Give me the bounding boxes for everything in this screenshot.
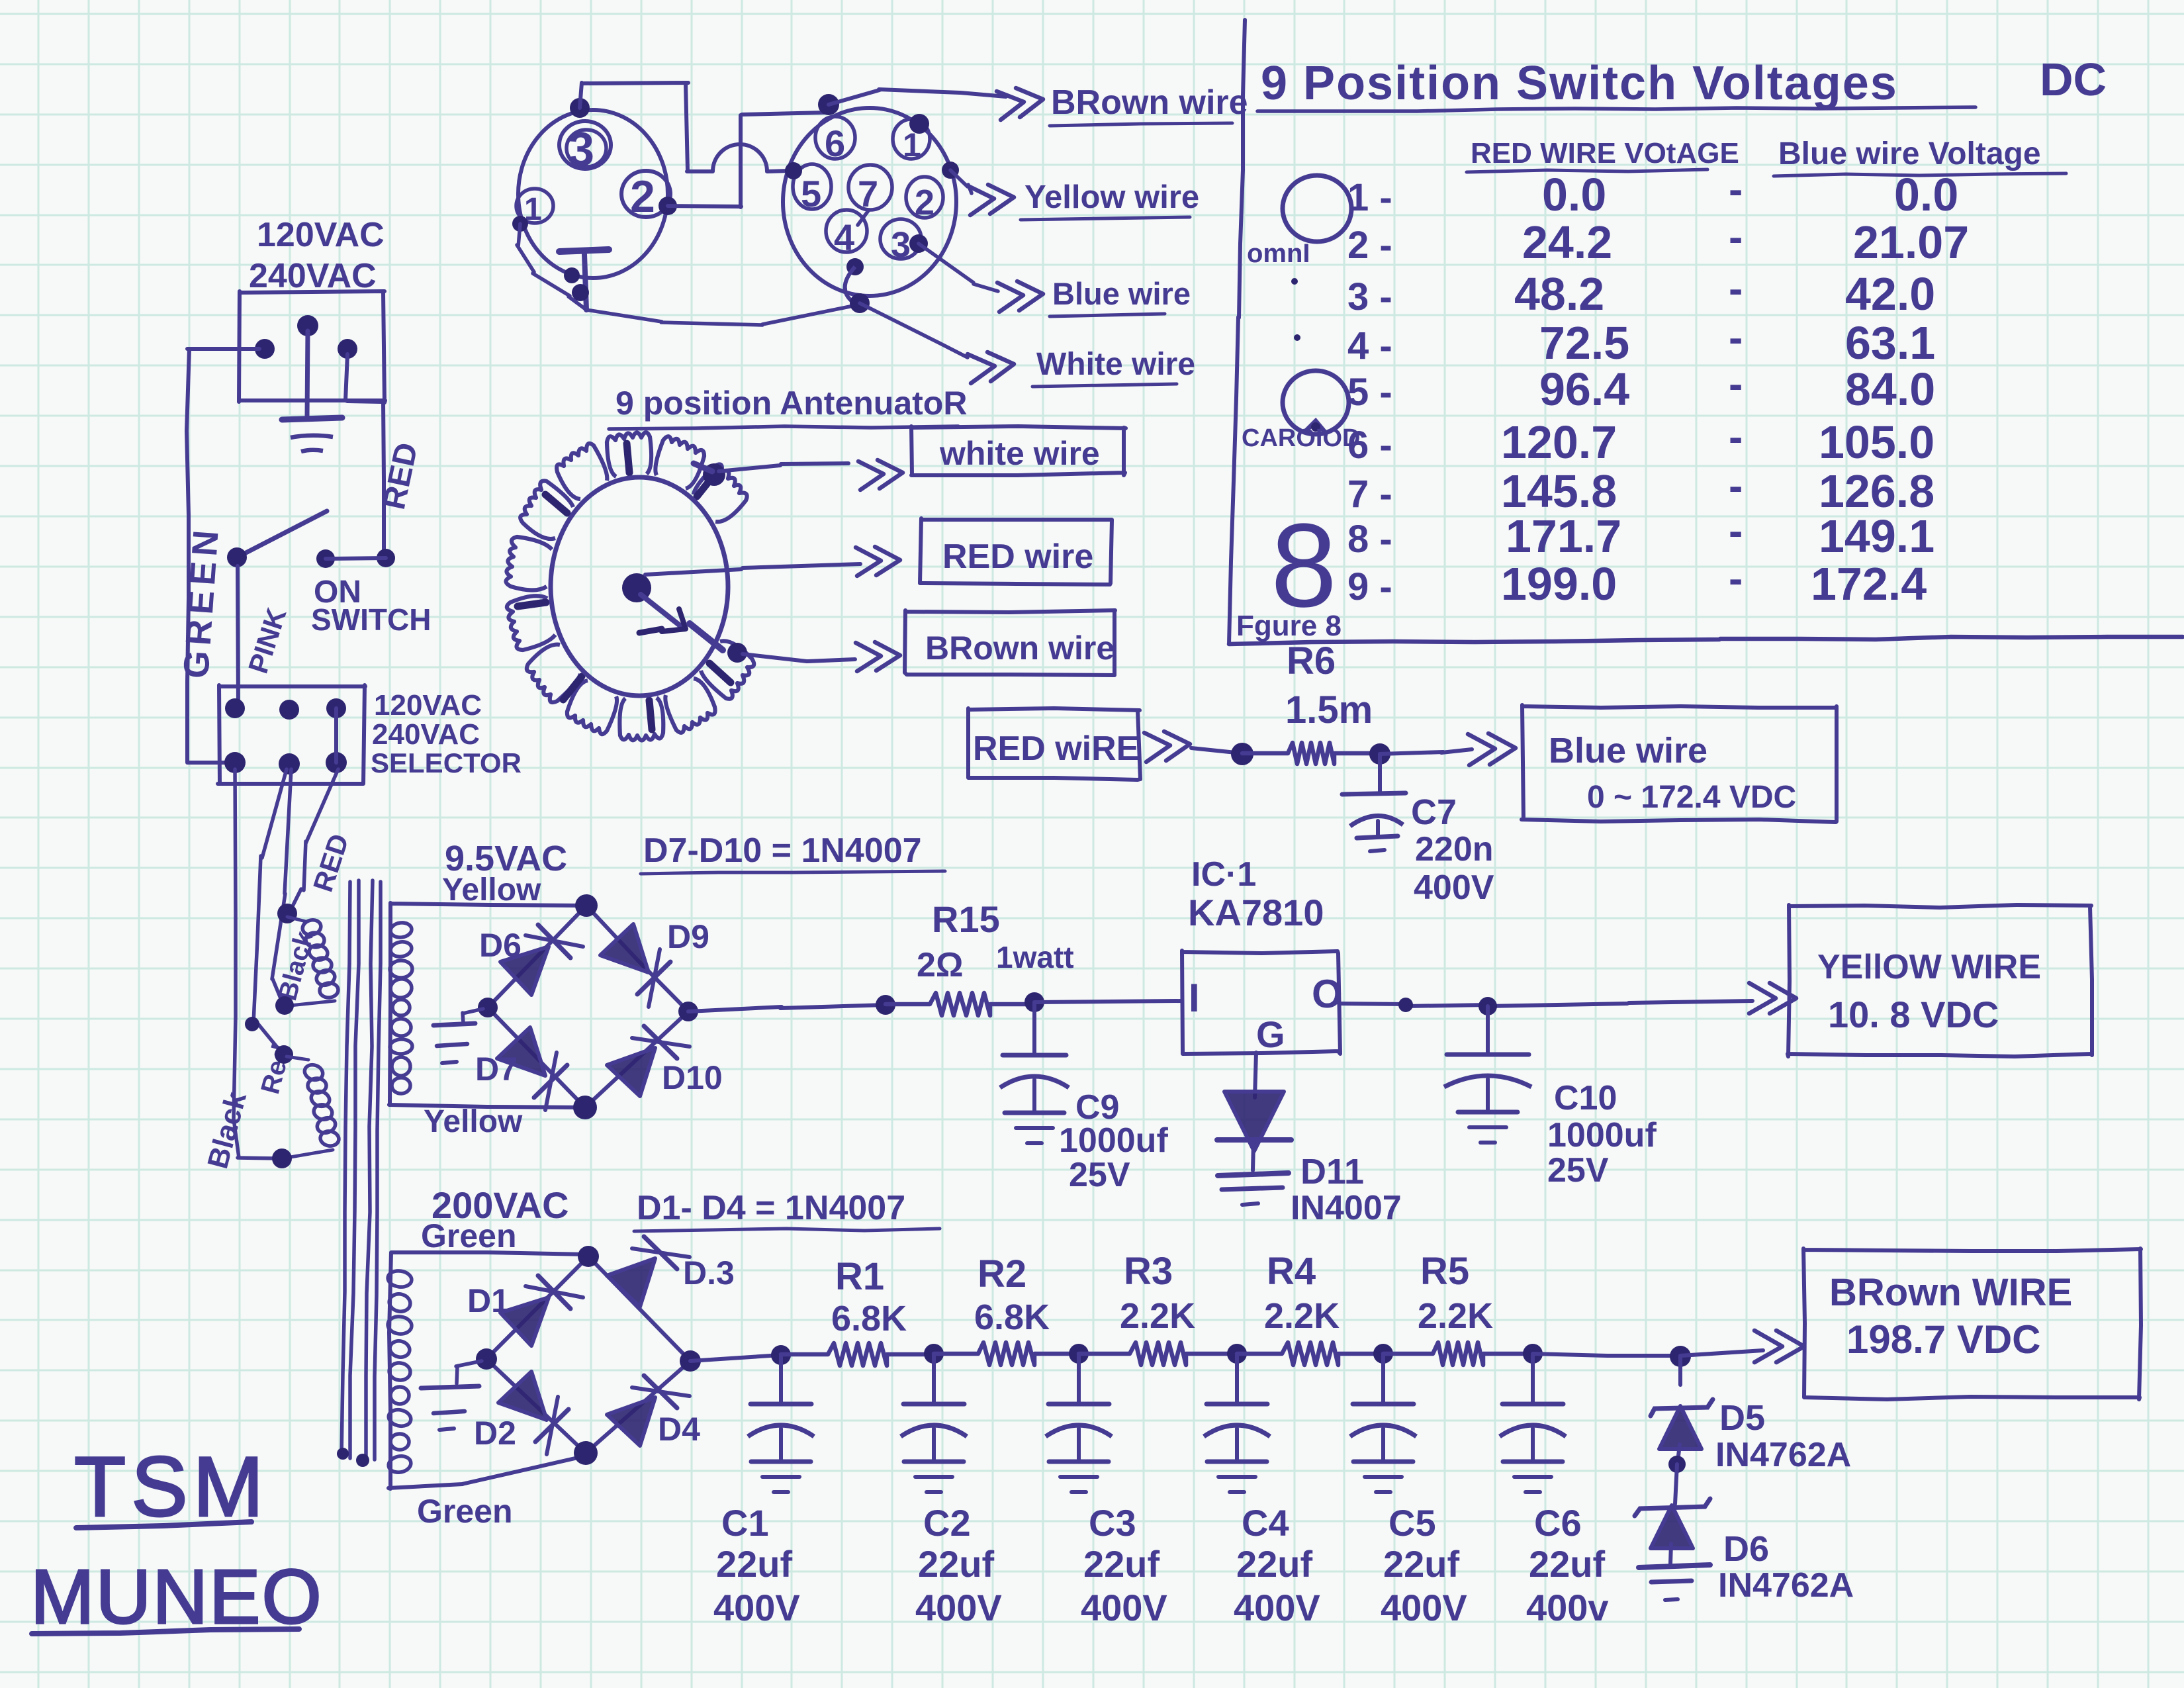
wire: bridge2 bottom-right edge <box>586 1361 690 1453</box>
label Figure 8 <box>1236 610 1342 642</box>
svg-text:5 -: 5 - <box>1347 371 1392 414</box>
svg-text:D6: D6 <box>479 927 522 964</box>
label Yellow (bottom) <box>424 1104 523 1139</box>
svg-text:Blue wire Voltage: Blue wire Voltage <box>1778 136 2041 171</box>
node: C6 junction <box>1523 1344 1543 1364</box>
label Blue wire <box>1050 276 1191 316</box>
table row 5: 96.4 / 84.0 <box>1347 360 1935 415</box>
svg-text:21.07: 21.07 <box>1853 216 1969 268</box>
svg-text:I: I <box>1189 976 1200 1020</box>
wire: S1 middle to right contact <box>326 558 386 559</box>
ground <box>282 418 342 451</box>
zener diode D6 <box>1635 1464 1710 1564</box>
svg-text:400V: 400V <box>1234 1587 1320 1628</box>
label C7 220n 400V <box>1411 792 1494 907</box>
label D10 <box>662 1059 723 1096</box>
label R6 <box>1287 639 1336 682</box>
transformer secondary 200VAC winding <box>387 1252 586 1489</box>
svg-text:63.1: 63.1 <box>1845 317 1935 369</box>
svg-text:White wire: White wire <box>1036 347 1195 382</box>
wire black: selector B1 to primary lower winding bottom <box>234 769 279 1158</box>
label C1 22uf 400V <box>713 1502 800 1628</box>
svg-text:1 -: 1 - <box>1347 176 1392 219</box>
svg-text:Green: Green <box>417 1493 513 1530</box>
svg-text:IN4007: IN4007 <box>1291 1189 1402 1227</box>
node: S1 middle contact <box>316 549 335 568</box>
diode D6 <box>500 925 583 995</box>
wire: selector B2 to primary upper winding bottom <box>272 769 291 1005</box>
label Brown wire <box>1050 83 1248 126</box>
diode D3 <box>607 1237 690 1307</box>
wire: R6 to blue box arrow <box>1380 749 1472 754</box>
wire white: to label <box>860 303 968 357</box>
svg-text:5: 5 <box>801 173 821 214</box>
svg-text:199.0: 199.0 <box>1501 558 1617 610</box>
label YELLOW WIRE 10.8 VDC <box>1817 948 2041 1035</box>
ground <box>1639 1565 1710 1600</box>
table row 7: 145.8 / 126.8 <box>1347 462 1934 517</box>
node: S1 left contact <box>227 547 247 567</box>
wire: bridge2 top-right edge <box>588 1256 690 1361</box>
node: R6 left junction <box>1231 743 1253 765</box>
svg-text:2: 2 <box>915 183 934 222</box>
label white wire (boxed) <box>939 435 1100 472</box>
capacitor C9 <box>1000 1002 1069 1143</box>
svg-text:10. 8 VDC: 10. 8 VDC <box>1828 994 1999 1035</box>
signature MUNEO <box>30 1554 323 1640</box>
node: D5/D6 junction <box>1668 1456 1686 1473</box>
svg-text:2.2K: 2.2K <box>1120 1296 1195 1336</box>
svg-text:3: 3 <box>568 123 594 176</box>
label RED (vertical upper) <box>307 830 355 896</box>
node: XLR-1 pin2 right <box>659 197 677 215</box>
label GREEN (vertical) <box>176 524 226 680</box>
cardioid pattern symbol <box>1283 371 1349 434</box>
label 1.5m <box>1285 688 1373 731</box>
wire arrow into yellow box <box>1749 983 1796 1013</box>
svg-text:Green: Green <box>421 1217 517 1254</box>
svg-text:C4: C4 <box>1242 1502 1289 1544</box>
arrow to Brown wire <box>997 88 1043 120</box>
arrow out of RED wire box <box>1144 731 1190 762</box>
pin 1 of XLR-2 <box>893 119 930 164</box>
wire: R15 to IC input <box>1034 1001 1182 1002</box>
arrow into RED wire box <box>856 547 900 576</box>
label C2 22uf 400V <box>915 1502 1002 1628</box>
label 120VAC/240VAC mains input <box>249 216 385 295</box>
label D7 <box>475 1051 518 1088</box>
omni pattern symbol <box>1283 175 1351 242</box>
svg-text:D1: D1 <box>467 1282 510 1319</box>
resistor R1 <box>781 1343 934 1366</box>
dot marker row3 <box>1291 278 1298 285</box>
svg-text:6: 6 <box>825 122 845 164</box>
svg-text:R5: R5 <box>1420 1250 1469 1293</box>
wire: attenuator hub to RED wire box <box>645 564 860 575</box>
label ON SWITCH <box>311 575 431 637</box>
svg-text:IN4762A: IN4762A <box>1718 1566 1854 1605</box>
svg-text:2: 2 <box>630 171 655 222</box>
label Blue wire 0-172.4VDC <box>1549 731 1796 815</box>
svg-text:R15: R15 <box>932 898 1000 940</box>
svg-text:D.3: D.3 <box>683 1254 735 1291</box>
svg-text:6.8K: 6.8K <box>974 1297 1050 1337</box>
svg-text:48.2: 48.2 <box>1514 268 1604 320</box>
svg-text:96.4: 96.4 <box>1539 363 1629 415</box>
svg-text:D9: D9 <box>667 918 709 955</box>
svg-text:72.5: 72.5 <box>1539 317 1629 369</box>
pin 4 of XLR-2 <box>826 210 867 258</box>
label 200VAC <box>432 1184 569 1226</box>
svg-text:D4: D4 <box>658 1411 700 1448</box>
node: attenuator lower tap <box>690 624 747 663</box>
svg-text:C1: C1 <box>721 1502 769 1544</box>
label Yellow (top) <box>442 872 541 908</box>
svg-text:220n: 220n <box>1415 830 1494 868</box>
svg-text:400V: 400V <box>915 1587 1002 1628</box>
svg-text:SWITCH: SWITCH <box>311 602 431 637</box>
label C9 1000uf 25V <box>1059 1088 1168 1194</box>
column header RED WIRE VOLTAGE <box>1467 137 1739 172</box>
label CARDIOD <box>1242 424 1360 452</box>
svg-text:9 Position Switch Voltages: 9 Position Switch Voltages <box>1261 57 1898 110</box>
svg-text:D11: D11 <box>1300 1152 1364 1192</box>
node: D5 junction <box>1670 1346 1691 1367</box>
node: bridge2 right (DC+) <box>680 1350 701 1372</box>
svg-text:145.8: 145.8 <box>1501 465 1617 517</box>
svg-text:22uf: 22uf <box>1529 1543 1605 1585</box>
pin 3 of XLR-1 <box>559 121 611 176</box>
label PINK (vertical) <box>242 604 293 677</box>
svg-text:Yellow: Yellow <box>424 1104 523 1139</box>
svg-text:RED wiRE: RED wiRE <box>973 729 1139 768</box>
svg-text:C5: C5 <box>1388 1502 1436 1544</box>
node: bridge2 left (gnd) <box>476 1348 497 1370</box>
svg-text:RED WIRE VOtAGE: RED WIRE VOtAGE <box>1471 137 1739 169</box>
svg-text:D6: D6 <box>1723 1529 1769 1569</box>
table row 4: 72.5 / 63.1 <box>1347 314 1935 369</box>
capacitor C3 <box>1046 1355 1112 1492</box>
figure-8 baseline (long horizontal) <box>1229 637 2183 644</box>
box: RED wire (lower) <box>968 708 1140 780</box>
connector P1 mains receptacle box <box>239 291 385 402</box>
wire: XLR-2 pin4 loop to white node <box>845 267 870 313</box>
diode D4 <box>607 1376 690 1446</box>
label C6 22uf 400V <box>1526 1502 1609 1628</box>
resistor ring of 9-position attenuator <box>506 432 754 740</box>
capacitor C6 <box>1500 1355 1566 1492</box>
svg-text:D7-D10 = 1N4007: D7-D10 = 1N4007 <box>643 831 922 870</box>
svg-text:25V: 25V <box>1547 1151 1609 1190</box>
node: XLR-1 pin1 left <box>512 216 528 232</box>
node: bridge1 right (DC+) <box>678 1002 698 1021</box>
svg-text:R3: R3 <box>1124 1250 1173 1293</box>
pin 6 of XLR-2 <box>815 117 855 164</box>
svg-text:R6: R6 <box>1287 639 1336 682</box>
svg-text:0.0: 0.0 <box>1542 169 1606 220</box>
node: C3 junction <box>1069 1344 1089 1364</box>
table row 9: 199.0 / 172.4 <box>1347 555 1927 610</box>
arrow to White wire <box>968 352 1014 383</box>
capacitor C4 <box>1204 1355 1270 1492</box>
label Green (bottom) <box>417 1493 513 1530</box>
label C4 22uf 400V <box>1234 1502 1320 1628</box>
svg-text:7 -: 7 - <box>1347 473 1392 516</box>
svg-text:D1- D4 = 1N4007: D1- D4 = 1N4007 <box>637 1189 905 1227</box>
diode D7 <box>497 1027 567 1110</box>
wire: top tap to white wire box <box>719 463 848 471</box>
resistor R6 <box>1242 743 1380 764</box>
svg-text:C6: C6 <box>1534 1502 1582 1544</box>
svg-text:-: - <box>1729 507 1743 555</box>
capacitor C2 <box>901 1355 967 1492</box>
svg-text:-: - <box>1729 265 1743 312</box>
svg-text:CAROIOD: CAROIOD <box>1242 424 1360 452</box>
box: Blue wire output <box>1522 705 1837 822</box>
node: small junction after IC <box>1398 998 1413 1012</box>
svg-text:1.5m: 1.5m <box>1285 688 1373 731</box>
label IC-1 KA7810 <box>1188 855 1324 933</box>
resistor R4 <box>1237 1342 1383 1365</box>
svg-text:400V: 400V <box>713 1587 800 1628</box>
label omnI <box>1247 239 1310 268</box>
svg-text:R2: R2 <box>978 1252 1026 1295</box>
transformer T1 primary upper winding <box>275 904 339 1015</box>
svg-text:400V: 400V <box>1414 868 1494 907</box>
svg-text:240VAC: 240VAC <box>249 257 377 295</box>
label D6 <box>479 927 522 964</box>
svg-text:240VAC: 240VAC <box>372 718 480 751</box>
node: R15/C9 junction <box>1024 992 1044 1012</box>
wire: bridge2 bottom-left edge <box>486 1359 586 1453</box>
wire: XLR-1 pin2 staircase to XLR-2 top <box>668 113 825 207</box>
table row 2: 24.2 / 21.07 <box>1347 213 1969 268</box>
diode D2 <box>498 1372 569 1454</box>
wire: bridge1 DC+ to R15 <box>688 1005 886 1011</box>
label RED wire (lower boxed) <box>973 729 1139 768</box>
svg-text:-: - <box>1729 462 1743 510</box>
label D9 <box>667 918 709 955</box>
diode D1 <box>500 1276 583 1346</box>
connector XLR-2 shell <box>783 108 956 296</box>
wire brown: XLR-2 to label <box>829 89 1006 105</box>
ground <box>421 1361 482 1430</box>
box: Brown wire output <box>1803 1248 2141 1399</box>
svg-text:D7: D7 <box>475 1051 518 1088</box>
node: XLR-2 pin4 bottom <box>846 258 864 275</box>
label Red (vertical) <box>255 1041 296 1097</box>
svg-text:O: O <box>1312 972 1343 1016</box>
node: S1 right contact <box>377 549 395 567</box>
wire red: P1 right pin to ON switch <box>345 354 384 557</box>
svg-text:2.2K: 2.2K <box>1418 1296 1493 1336</box>
svg-text:149.1: 149.1 <box>1819 510 1934 562</box>
label 9.5VAC <box>445 839 567 878</box>
label Brown wire (boxed) <box>925 630 1115 667</box>
svg-text:1000uf: 1000uf <box>1059 1121 1168 1160</box>
node: XLR-2 top-right <box>909 114 929 134</box>
svg-text:25V: 25V <box>1069 1156 1130 1194</box>
wiper arrow <box>639 594 686 633</box>
transformer T1 primary lower winding <box>272 1045 340 1168</box>
label BROWN WIRE 198.7 VDC <box>1829 1271 2072 1362</box>
diode D10 <box>607 1026 690 1096</box>
svg-text:R1: R1 <box>835 1255 884 1298</box>
arrow to Blue wire <box>997 281 1043 312</box>
label R1 6.8K <box>831 1255 907 1338</box>
wire yellow: XLR-2 pin2 to label <box>950 170 972 193</box>
svg-text:-: - <box>1729 213 1743 261</box>
table row 6: 120.7 / 105.0 <box>1347 413 1934 468</box>
svg-text:22uf: 22uf <box>1083 1543 1160 1585</box>
svg-text:D5: D5 <box>1719 1398 1765 1438</box>
node: bridge1 left (gnd) <box>478 998 498 1017</box>
zener diode D5 <box>1651 1356 1713 1462</box>
pin 1 of XLR-1 <box>516 189 553 227</box>
svg-text:22uf: 22uf <box>1236 1543 1312 1585</box>
node: attenuator top tap <box>694 463 725 486</box>
svg-text:7: 7 <box>858 173 878 214</box>
attenuator rotor circle <box>551 477 728 696</box>
label R4 2.2K <box>1264 1250 1340 1336</box>
wire: bridge1 bottom-right edge <box>585 1011 688 1107</box>
box: white wire <box>911 426 1126 475</box>
resistor R15 <box>886 993 1034 1015</box>
svg-text:-: - <box>1729 165 1743 213</box>
svg-text:6.8K: 6.8K <box>831 1299 907 1338</box>
wire: XLR-1 shell to white-wire node <box>517 224 860 325</box>
ground lug of XLR-1 <box>559 250 609 310</box>
label White wire <box>1032 347 1195 387</box>
node: red/black junction <box>245 1017 259 1031</box>
label C10 1000uf 25V <box>1547 1079 1657 1190</box>
wire: C6 junction to D5 junction <box>1533 1354 1680 1356</box>
node: junction before R15 <box>876 995 895 1015</box>
label D1-D4 = 1N4007 <box>634 1189 940 1231</box>
label D6 IN4762A <box>1718 1529 1854 1605</box>
wire: bridge2 DC+ to C1 junction <box>690 1355 781 1361</box>
capacitor C10 <box>1444 1006 1531 1143</box>
wire arrow into brown box <box>1754 1331 1804 1362</box>
svg-text:D2: D2 <box>474 1415 516 1452</box>
capacitor C7 <box>1342 754 1406 851</box>
svg-text:Yellow wire: Yellow wire <box>1024 179 1199 215</box>
op-amp U1 regulator IC-1 KA7810 box <box>1182 951 1340 1054</box>
node: C2 junction <box>924 1344 944 1364</box>
label C3 22uf 400V <box>1081 1502 1167 1628</box>
svg-text:400V: 400V <box>1381 1587 1467 1628</box>
svg-text:BRown WIRE: BRown WIRE <box>1829 1271 2072 1314</box>
capacitor C1 <box>748 1355 814 1492</box>
label 9 position Antenuator <box>609 385 967 429</box>
pin 7 of XLR-2 <box>848 165 892 214</box>
node: XLR-2 pin3 lower-right <box>909 234 928 253</box>
wire red: selector B2 to primary lower winding top <box>253 769 287 1054</box>
svg-text:C3: C3 <box>1089 1502 1136 1544</box>
ground <box>1218 1173 1289 1205</box>
label R15 <box>932 898 1000 940</box>
svg-text:IN4762A: IN4762A <box>1715 1436 1851 1474</box>
signature TSM <box>74 1440 269 1534</box>
label D11 IN4007 <box>1291 1152 1402 1227</box>
svg-text:1000uf: 1000uf <box>1547 1116 1657 1154</box>
svg-text:D10: D10 <box>662 1059 723 1096</box>
connector XLR-1 shell <box>518 110 668 278</box>
node: C1 junction <box>771 1345 791 1365</box>
node: C10 junction <box>1479 997 1497 1015</box>
svg-text:400V: 400V <box>1081 1587 1167 1628</box>
label R5 2.2K <box>1418 1250 1493 1336</box>
wire: XLR-2 pin7 to pin4 link <box>858 210 869 225</box>
resistor R5 <box>1383 1342 1533 1365</box>
svg-text:YEllOW WIRE: YEllOW WIRE <box>1817 948 2041 986</box>
wire: XLR-1 pin3 staircase to XLR-2 pin5 <box>580 83 789 171</box>
node: XLR-2 top-left <box>818 94 839 115</box>
arrow into Blue wire box <box>1468 733 1516 765</box>
node: attenuator wiper hub <box>622 573 651 602</box>
label Black (vertical upper) <box>273 927 319 1004</box>
selector pin A3 <box>326 698 346 718</box>
pin 5 of XLR-2 <box>793 164 831 214</box>
label D3 <box>683 1254 735 1291</box>
selector pin B1 <box>224 752 246 773</box>
wire: RED box to R6 <box>1191 748 1242 753</box>
figure-8 pattern symbol <box>1271 499 1337 632</box>
svg-text:0.0: 0.0 <box>1894 169 1958 220</box>
svg-text:IC·1: IC·1 <box>1191 855 1256 894</box>
svg-text:3: 3 <box>891 225 911 265</box>
wire: lower tap to Brown wire box <box>743 654 855 661</box>
wire pink: S1 left contact down to selector <box>238 566 238 707</box>
svg-text:Fgure 8: Fgure 8 <box>1236 610 1342 642</box>
svg-text:C7: C7 <box>1411 792 1457 832</box>
svg-text:C2: C2 <box>923 1502 971 1544</box>
node: XLR-2 pin5 left <box>785 162 802 179</box>
svg-text:4 -: 4 - <box>1347 324 1392 367</box>
node: bridge1 top (AC) <box>575 894 598 917</box>
diode D9 <box>600 924 670 1007</box>
pin O <box>1312 972 1343 1016</box>
table title 9 Position Switch Voltages DC <box>1257 54 2107 111</box>
svg-text:-: - <box>1729 360 1743 408</box>
node: bridge1 bottom (AC) <box>573 1096 597 1119</box>
wire: D5 junction to brown box arrow <box>1680 1350 1763 1356</box>
svg-text:2 -: 2 - <box>1347 224 1392 267</box>
table row 3: 48.2 / 42.0 <box>1347 265 1935 320</box>
svg-text:22uf: 22uf <box>1383 1543 1459 1585</box>
wire: bridge1 bottom-left edge <box>488 1008 585 1107</box>
label RED wire (boxed) <box>942 538 1093 576</box>
arrow to Yellow wire <box>968 185 1014 215</box>
label 120VAC 240VAC SELECTOR <box>371 689 522 778</box>
pin hot (top) of P1 <box>297 315 318 417</box>
svg-text:BRown wire: BRown wire <box>1051 83 1248 122</box>
node: XLR-2 pin2 right <box>942 162 959 179</box>
dot marker row4 <box>1294 334 1300 341</box>
svg-text:84.0: 84.0 <box>1845 363 1935 415</box>
table row 1: 0.0 / 0.0 <box>1347 165 1958 220</box>
svg-text:R4: R4 <box>1267 1250 1316 1293</box>
selector pin A1 <box>225 698 245 718</box>
resistor R2 <box>934 1342 1079 1365</box>
pin G <box>1256 1013 1285 1055</box>
pin I <box>1189 976 1200 1020</box>
svg-text:1watt: 1watt <box>996 940 1074 974</box>
svg-text:BRown wire: BRown wire <box>925 630 1115 667</box>
capacitor C5 <box>1350 1355 1416 1492</box>
svg-text:2Ω: 2Ω <box>917 946 964 984</box>
svg-text:KA7810: KA7810 <box>1188 892 1324 933</box>
